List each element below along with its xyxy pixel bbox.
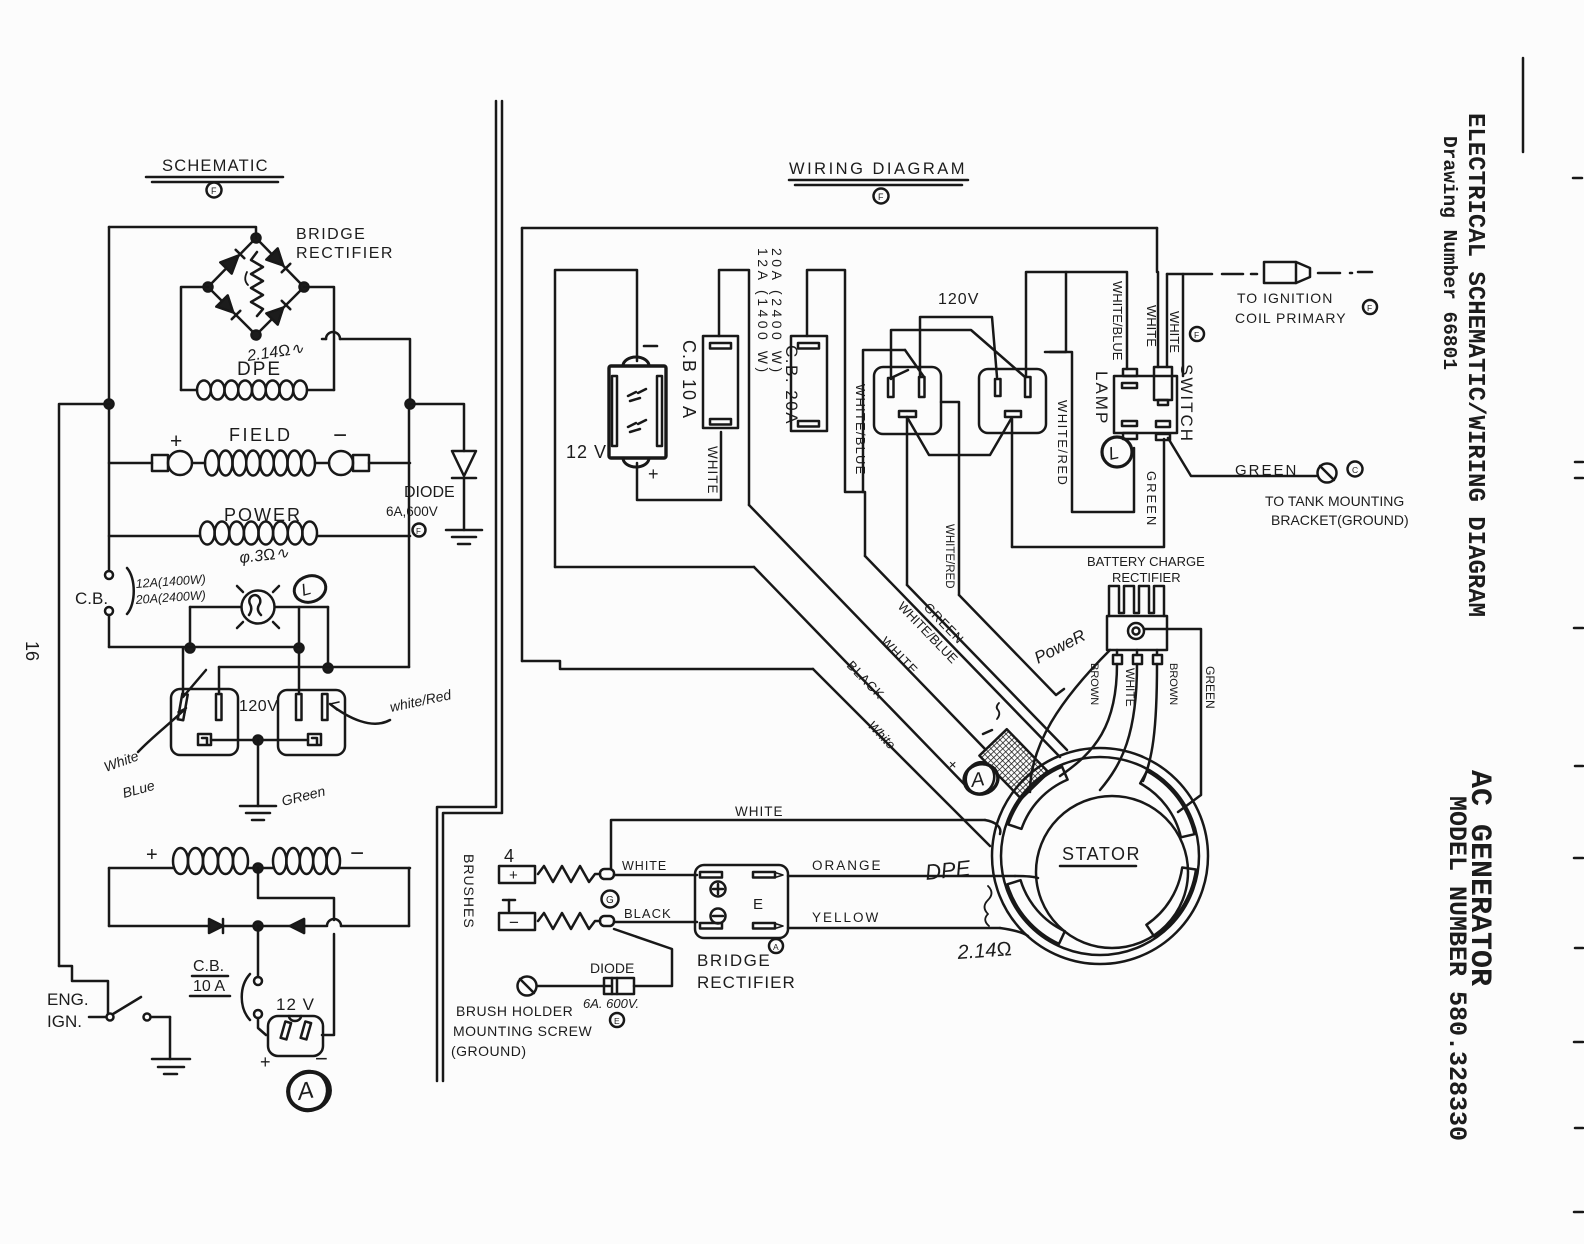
- svg-text:BLACK: BLACK: [624, 906, 672, 921]
- svg-text:WHITE: WHITE: [1167, 311, 1182, 353]
- svg-text:BROWN: BROWN: [1088, 663, 1100, 705]
- svg-text:DIODE: DIODE: [404, 484, 455, 501]
- svg-text:F: F: [416, 527, 421, 536]
- svg-text:MOUNTING SCREW: MOUNTING SCREW: [453, 1023, 593, 1039]
- svg-text:RECTIFIER: RECTIFIER: [1112, 570, 1181, 585]
- svg-text:WHITE/BLUE: WHITE/BLUE: [1110, 281, 1125, 361]
- svg-text:BRACKET(GROUND): BRACKET(GROUND): [1271, 512, 1409, 528]
- svg-text:BRUSH HOLDER: BRUSH HOLDER: [456, 1003, 573, 1019]
- svg-text:ELECTRICAL SCHEMATIC/WIRING DI: ELECTRICAL SCHEMATIC/WIRING DIAGRAM: [1461, 113, 1488, 617]
- svg-text:(GROUND): (GROUND): [451, 1043, 527, 1059]
- svg-text:TO TANK MOUNTING: TO TANK MOUNTING: [1265, 493, 1404, 509]
- svg-text:6A,600V: 6A,600V: [386, 504, 438, 519]
- svg-text:F: F: [878, 192, 884, 202]
- svg-text:120V: 120V: [938, 291, 979, 308]
- svg-text:WHITE/BLUE: WHITE/BLUE: [853, 384, 868, 475]
- svg-text:+: +: [648, 464, 659, 484]
- svg-text:F: F: [211, 186, 217, 196]
- svg-text:F: F: [1367, 303, 1372, 313]
- svg-text:A: A: [773, 942, 779, 952]
- svg-text:C.B.: C.B.: [193, 958, 224, 975]
- svg-text:TO IGNITION: TO IGNITION: [1237, 290, 1333, 306]
- svg-text:4: 4: [504, 846, 514, 866]
- svg-text:SCHEMATIC: SCHEMATIC: [162, 157, 269, 175]
- svg-text:WHITE: WHITE: [705, 446, 720, 495]
- svg-text:WHITE: WHITE: [622, 859, 667, 873]
- svg-text:STATOR: STATOR: [1062, 844, 1141, 864]
- svg-text:16: 16: [22, 641, 42, 661]
- svg-text:12A (1400 W): 12A (1400 W): [755, 248, 771, 376]
- svg-text:RECTIFIER: RECTIFIER: [296, 245, 394, 262]
- svg-text:G: G: [606, 895, 614, 906]
- svg-text:BRUSHES: BRUSHES: [461, 854, 477, 929]
- svg-text:COIL PRIMARY: COIL PRIMARY: [1235, 310, 1347, 326]
- svg-text:DPE: DPE: [924, 855, 972, 885]
- svg-text:WIRING DIAGRAM: WIRING DIAGRAM: [789, 160, 967, 178]
- svg-text:IGN.: IGN.: [47, 1012, 82, 1031]
- svg-text:12 V: 12 V: [276, 995, 315, 1014]
- svg-text:12 V: 12 V: [566, 442, 607, 462]
- svg-text:GREEN: GREEN: [1203, 666, 1217, 709]
- svg-text:DPE: DPE: [237, 359, 282, 380]
- svg-text:6A. 600V.: 6A. 600V.: [583, 996, 639, 1011]
- svg-text:−: −: [509, 913, 519, 932]
- svg-text:+: +: [260, 1052, 271, 1072]
- svg-text:−: −: [333, 422, 347, 449]
- svg-text:Drawing Number 66801: Drawing Number 66801: [1438, 136, 1460, 370]
- svg-text:E: E: [753, 896, 763, 913]
- svg-text:WHITE/RED: WHITE/RED: [943, 524, 955, 589]
- svg-text:10 A: 10 A: [193, 978, 225, 995]
- svg-text:BRIDGE: BRIDGE: [697, 951, 771, 970]
- svg-text:GREEN: GREEN: [1144, 471, 1159, 527]
- svg-text:C.B.: C.B.: [75, 589, 108, 608]
- svg-text:FIELD: FIELD: [229, 425, 293, 445]
- svg-text:+: +: [509, 867, 518, 884]
- svg-text:F: F: [1194, 330, 1199, 340]
- svg-text:E: E: [614, 1016, 620, 1026]
- svg-text:+: +: [170, 430, 182, 453]
- svg-text:LAMP: LAMP: [1092, 371, 1111, 425]
- svg-text:WHITE/RED: WHITE/RED: [1055, 400, 1070, 486]
- svg-text:−: −: [350, 840, 364, 867]
- svg-text:BRIDGE: BRIDGE: [296, 226, 366, 243]
- svg-text:+: +: [146, 844, 158, 866]
- svg-text:C: C: [1352, 465, 1358, 475]
- svg-text:120V: 120V: [239, 698, 278, 715]
- svg-text:SWITCH: SWITCH: [1177, 364, 1196, 443]
- svg-text:RECTIFIER: RECTIFIER: [697, 973, 796, 992]
- svg-text:2.14Ω: 2.14Ω: [956, 938, 1013, 964]
- svg-text:ORANGE: ORANGE: [812, 858, 883, 873]
- svg-text:MODEL NUMBER 580.328330: MODEL NUMBER 580.328330: [1442, 796, 1471, 1141]
- svg-text:BROWN: BROWN: [1167, 663, 1179, 705]
- svg-text:DIODE: DIODE: [590, 960, 634, 976]
- svg-text:WHITE: WHITE: [735, 804, 784, 819]
- svg-text:BATTERY CHARGE: BATTERY CHARGE: [1087, 554, 1205, 569]
- svg-text:C.B 10 A: C.B 10 A: [679, 340, 699, 419]
- svg-text:A: A: [969, 768, 986, 792]
- svg-text:YELLOW: YELLOW: [812, 910, 880, 925]
- svg-text:ENG.: ENG.: [47, 990, 89, 1009]
